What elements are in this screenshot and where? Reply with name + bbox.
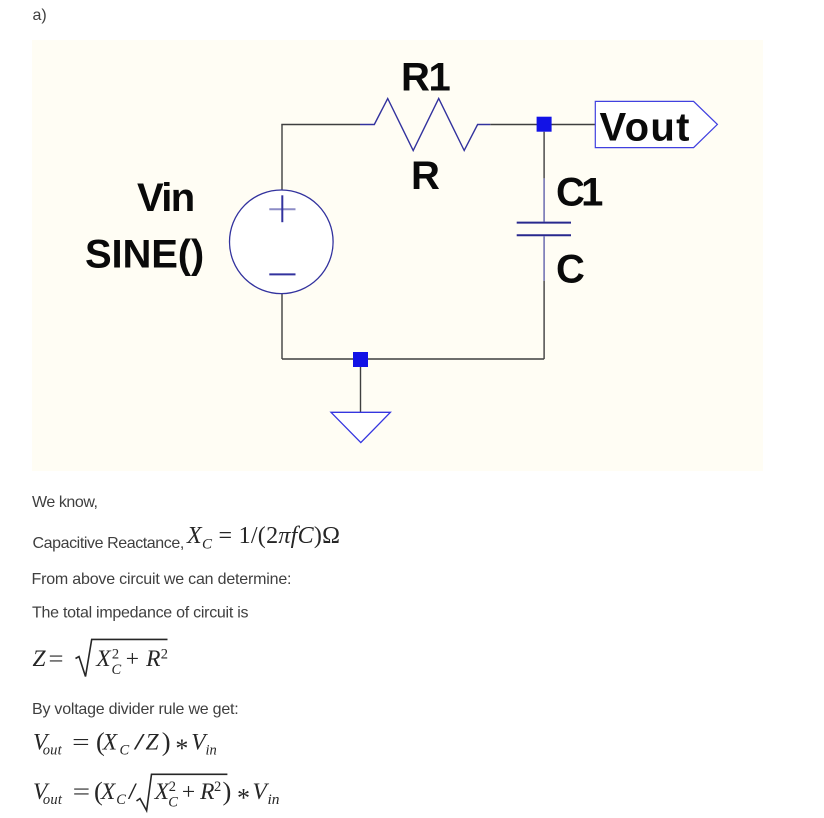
svg-text:out: out: [43, 743, 63, 759]
svg-text:We know,: We know,: [32, 494, 98, 511]
svg-text:R: R: [411, 154, 440, 198]
wire: capacitor to bottom rail: [543, 281, 545, 359]
svg-text:in: in: [268, 792, 280, 808]
math: Vout = (Xc/Z) * Vin: [33, 727, 217, 764]
plus sign of source: [269, 195, 295, 222]
capacitor C1: [517, 178, 571, 280]
svg-text:+: +: [182, 779, 195, 805]
svg-text:R: R: [145, 646, 160, 672]
svg-text:*: *: [175, 734, 188, 763]
svg-text:X: X: [95, 646, 112, 672]
svg-text:Vin: Vin: [137, 176, 195, 220]
Vout net flag: [595, 101, 717, 147]
svg-text:out: out: [43, 792, 63, 808]
voltage source V1 circle: [229, 190, 333, 294]
svg-text:/: /: [134, 730, 146, 756]
svg-text:C: C: [116, 792, 126, 808]
svg-text:=: =: [49, 646, 64, 672]
svg-text:2: 2: [169, 779, 176, 795]
svg-text:=: =: [73, 779, 91, 805]
svg-text:By voltage divider rule we get: By voltage divider rule we get:: [32, 701, 239, 718]
svg-text:=: =: [72, 730, 90, 756]
svg-text:C: C: [168, 795, 178, 811]
svg-text:Vout: Vout: [600, 105, 690, 149]
wire: bottom rail: [282, 358, 544, 360]
svg-text:Z: Z: [33, 646, 47, 672]
svg-text:Z: Z: [146, 730, 160, 756]
svg-text:R: R: [199, 779, 214, 805]
svg-text:2: 2: [214, 779, 221, 795]
svg-text:From above circuit we can dete: From above circuit we can determine:: [32, 571, 292, 588]
svg-text:C: C: [556, 248, 585, 292]
minus sign of source: [269, 273, 295, 275]
svg-text:in: in: [206, 743, 217, 759]
svg-text:2: 2: [161, 647, 168, 663]
svg-text:a): a): [33, 7, 47, 24]
wire: ground stub: [360, 367, 362, 412]
svg-text:C: C: [112, 662, 122, 678]
svg-text:*: *: [237, 784, 250, 813]
svg-text:X: X: [102, 730, 119, 756]
schematic panel background: [32, 40, 763, 471]
svg-text:R1: R1: [401, 56, 451, 100]
wire: left vertical from source to bottom rail: [281, 294, 283, 360]
svg-text:C: C: [120, 743, 130, 759]
svg-text:SINE(): SINE(): [85, 233, 204, 277]
math: Z = sqrt(Xc^2 + R^2): [33, 639, 169, 678]
wire: from node down to capacitor: [543, 132, 545, 179]
svg-text:+: +: [126, 646, 139, 672]
svg-text:2: 2: [112, 647, 119, 663]
wire: top rail left segment: [281, 124, 360, 126]
svg-text:): ): [223, 776, 232, 806]
wire: top-left vertical from source to top rail: [281, 125, 283, 191]
svg-text:The total impedance of circuit: The total impedance of circuit is: [32, 605, 249, 622]
node junction square at ground: [353, 352, 368, 367]
node junction square at Vout: [537, 117, 552, 132]
math: Vout = (Xc/sqrt(Xc^2+R^2)) * Vin: [33, 774, 280, 812]
svg-text:): ): [162, 727, 171, 757]
svg-text:X: X: [100, 779, 117, 805]
wire: top rail right segment to Vout flag: [490, 124, 595, 126]
svg-text:XC = 1/(2πfC)Ω: XC = 1/(2πfC)Ω: [186, 523, 340, 553]
svg-text:Capacitive Reactance,: Capacitive Reactance,: [33, 535, 185, 552]
ground symbol: [331, 412, 390, 442]
svg-text:/: /: [128, 779, 138, 805]
resistor R1: [360, 99, 490, 151]
svg-text:C1: C1: [556, 170, 603, 214]
